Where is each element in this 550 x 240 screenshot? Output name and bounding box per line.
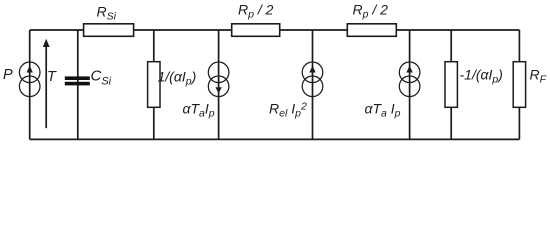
wire resistor 1/(alpha Ip) branch bbox=[153, 30, 155, 139]
current source alpha Ta Ip second (up arrow) bbox=[365, 62, 420, 119]
current source P bbox=[3, 62, 40, 97]
wire capacitor branch bbox=[77, 30, 79, 139]
node T arrow bbox=[43, 39, 57, 128]
wire right branch RF bbox=[518, 30, 520, 139]
wire resistor -1/(alpha Ip) branch bbox=[450, 30, 452, 139]
resistor R_p/2 second bbox=[347, 2, 396, 37]
wire source RelIp2 branch bbox=[312, 30, 314, 139]
resistor 1/(alpha Ip) bbox=[148, 62, 197, 108]
wire bottom rail bbox=[30, 138, 520, 140]
capacitor C_Si bbox=[65, 68, 112, 88]
resistor R_p/2 first bbox=[232, 2, 280, 37]
current source alpha Ta Ip (down arrow) bbox=[183, 62, 229, 119]
svg-text:T: T bbox=[47, 69, 57, 85]
wire source alphaTaIp2 branch bbox=[409, 30, 411, 139]
resistor R_F bbox=[513, 62, 546, 108]
svg-text:P: P bbox=[3, 67, 13, 83]
wire source alphaTaIp branch bbox=[218, 30, 220, 139]
wire top rail bbox=[30, 29, 520, 31]
current source R_el Ip^2 (up arrow) bbox=[269, 62, 323, 119]
resistor -1/(alpha Ip) bbox=[445, 62, 503, 108]
resistor R_Si bbox=[84, 3, 134, 36]
wire left branch bbox=[29, 30, 31, 139]
